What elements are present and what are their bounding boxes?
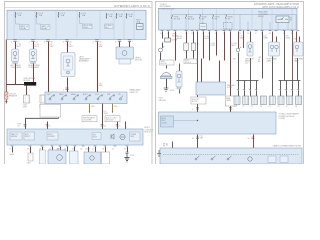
svg-text:SPLICE: SPLICE [161, 63, 168, 65]
wire W9 to leveling motor left pin [119, 42, 121, 48]
wire W11 splice bar to left feed [6, 84, 24, 86]
wire RW14 [243, 31, 245, 49]
wire W18 stub into bottom block [46, 122, 51, 130]
svg-text:4: 4 [63, 41, 64, 43]
svg-text:VT/W: VT/W [211, 45, 216, 47]
junction block JB (fuse box) [7, 10, 146, 39]
wire RW3 [176, 32, 183, 61]
BCM sub-box B4 [92, 133, 101, 140]
TIPM relay K4 [276, 16, 292, 23]
TIPM relay K2 [200, 22, 207, 30]
JB bottom connector tick C5 [93, 40, 102, 43]
wire label W16 code [104, 111, 109, 115]
svg-text:EXTERIOR LAMPS (1 OF 2): EXTERIOR LAMPS (1 OF 2) [114, 4, 150, 8]
page 1 title text [114, 4, 150, 8]
TIPM relay label text [258, 11, 269, 18]
svg-text:G100: G100 [170, 90, 174, 92]
page 1 border [5, 2, 153, 165]
svg-text:HEAD: HEAD [71, 93, 76, 96]
svg-text:TURN LAMP: TURN LAMP [10, 66, 22, 69]
wire W12b below circuit breaker [5, 100, 8, 104]
JB bottom connector tick C4 [63, 40, 72, 43]
TIPM fuse FE [226, 15, 234, 31]
wire label W2 code [35, 44, 40, 48]
wire label W8 code [99, 44, 104, 87]
svg-text:30: 30 [269, 33, 271, 35]
svg-text:GROUND: GROUND [159, 100, 167, 102]
wire W7 fog lamp to switch [63, 78, 69, 93]
headlamp assembly E6 [267, 32, 280, 63]
wire W20 stub into bottom block far right [125, 122, 127, 130]
wire W10 to leveling motor right pin [129, 42, 131, 48]
svg-text:3: 3 [192, 109, 193, 111]
switch contact SW1d [83, 93, 91, 100]
TIPM relay K3 (dashed) [224, 23, 233, 30]
page 1 header rule [5, 7, 153, 9]
cabin compartment node CCN (box R2) [160, 148, 302, 164]
svg-text:C5: C5 [99, 41, 101, 43]
svg-text:RELAY: RELAY [258, 15, 265, 18]
svg-text:C6: C6 [50, 41, 52, 43]
wire W8 feed to switch right [97, 42, 99, 93]
FCM label [279, 113, 300, 121]
inline connector box X1 [23, 95, 30, 109]
svg-text:15A: 15A [129, 15, 133, 18]
component box RC1 [226, 96, 237, 106]
svg-text:M6 20A: M6 20A [188, 17, 195, 20]
svg-text:ASSEMBLY: ASSEMBLY [79, 60, 90, 63]
svg-text:C2: C2 [242, 106, 244, 108]
BCM sub-box B3 [47, 132, 58, 140]
svg-text:C7: C7 [286, 106, 288, 108]
svg-text:18GY: 18GY [104, 113, 109, 115]
connector plug J7 [286, 96, 293, 108]
svg-text:29: 29 [112, 149, 114, 151]
svg-text:6: 6 [115, 41, 116, 43]
wire bus BL1 [237, 58, 259, 97]
bulb lamp E5 [245, 32, 254, 63]
resistor R2 [191, 32, 196, 59]
page 2 title text [254, 3, 299, 9]
svg-text:TURN LAMP: TURN LAMP [28, 66, 40, 69]
connector plug J6 [278, 96, 285, 108]
svg-text:RELAY: RELAY [41, 27, 48, 30]
resistor R1 [184, 32, 189, 59]
front fog lamp E3 [61, 53, 90, 77]
CCN buzzer glyph [248, 157, 252, 161]
svg-text:G301: G301 [10, 154, 14, 156]
wire bus BL2 [279, 58, 301, 97]
svg-text:BK/YL: BK/YL [35, 46, 40, 48]
wire W5 headlamp switch feed [48, 42, 50, 93]
svg-text:G302: G302 [130, 155, 134, 157]
TIPM pin number smudges [160, 33, 293, 35]
bottom component P2 [39, 147, 45, 164]
svg-text:INPUT: INPUT [25, 136, 31, 138]
svg-text:L64: L64 [294, 38, 297, 40]
wire label RW15 code [286, 35, 297, 40]
svg-text:C8: C8 [295, 106, 297, 108]
horn label box [160, 60, 175, 65]
svg-text:MODULE: MODULE [145, 132, 154, 134]
wire W13 splice down to connector box [26, 86, 28, 96]
wire RW2 [168, 32, 170, 39]
svg-text:25: 25 [72, 149, 74, 151]
JB bottom connector tick C3 [44, 40, 53, 43]
svg-text:POWER MODULE: POWER MODULE [160, 8, 176, 10]
BCM internal buzzer [120, 134, 125, 139]
svg-text:LOGIC: LOGIC [161, 122, 167, 124]
svg-text:15A: 15A [109, 15, 113, 18]
svg-text:6: 6 [119, 126, 120, 128]
wire RW15 [284, 31, 286, 81]
CCN switch glyph 1 [195, 156, 199, 160]
daytime running lamp module (blue box) [196, 59, 236, 96]
TIPM fuse FA [172, 15, 181, 31]
svg-text:3: 3 [63, 89, 64, 91]
svg-text:14GY: 14GY [23, 107, 28, 109]
wire RW6 [209, 32, 211, 61]
svg-text:18BK: 18BK [99, 46, 104, 48]
wire label W1 code [17, 44, 22, 48]
svg-text:C6: C6 [69, 41, 71, 43]
bottom component P6 [102, 147, 110, 164]
svg-text:2: 2 [29, 41, 30, 43]
junction block internal dividers [14, 10, 134, 39]
JB internal label box 3 [80, 18, 93, 30]
svg-text:30: 30 [124, 149, 126, 151]
svg-text:21: 21 [192, 138, 194, 140]
svg-text:B(+): B(+) [105, 27, 109, 29]
BCM internal diode D1 [111, 134, 114, 139]
BCM bottom pin ticks [9, 146, 128, 151]
wire RW5 [204, 32, 211, 59]
svg-text:BLOCK: BLOCK [24, 80, 31, 82]
JB bottom connector tick C7 [128, 40, 133, 43]
JB bottom connector tick C6 [115, 40, 121, 43]
svg-text:CLUSTER: CLUSTER [83, 120, 92, 122]
multifunction switch SW1 [45, 92, 127, 104]
switch circle SW2 [159, 43, 165, 63]
svg-text:PUMP: PUMP [227, 87, 233, 89]
svg-text:18W: 18W [200, 137, 204, 139]
wire RW4 long center [197, 32, 199, 113]
wire RW10 with labels [258, 32, 273, 97]
svg-text:28: 28 [102, 149, 104, 151]
splice block S1 (black bar) [24, 78, 37, 85]
svg-text:8: 8 [49, 126, 50, 128]
fuse F5 [106, 13, 113, 19]
svg-text:C4: C4 [260, 106, 262, 108]
svg-text:3: 3 [44, 41, 45, 43]
wire RW9 [231, 32, 237, 113]
bottom component P4 [68, 147, 79, 164]
svg-text:(CONT): (CONT) [279, 118, 286, 120]
svg-text:18BK: 18BK [99, 85, 104, 87]
svg-text:MODULE: MODULE [106, 120, 114, 122]
svg-text:BK/YL: BK/YL [232, 45, 237, 47]
svg-text:BREAKER: BREAKER [9, 95, 18, 98]
fuse F3 [58, 12, 66, 18]
svg-text:AUTO: AUTO [83, 93, 88, 96]
svg-text:BK/YL: BK/YL [17, 46, 22, 48]
JB internal label box 4 [105, 24, 114, 29]
svg-text:C7: C7 [17, 41, 19, 43]
wire W21 ground stub below BCM [10, 147, 14, 156]
splice label box 2 [184, 59, 197, 64]
wire W2 to right park lamp [33, 42, 35, 50]
CCN left label text [163, 143, 168, 147]
svg-text:M7 20A: M7 20A [174, 17, 181, 20]
circuit breaker CB1 [5, 92, 18, 99]
svg-text:EXTERIOR LAMPS - HEADLAMP SYST: EXTERIOR LAMPS - HEADLAMP SYSTEM [254, 3, 299, 6]
svg-text:C3: C3 [251, 106, 253, 108]
switch contact SW1a [47, 94, 55, 100]
svg-text:SPLICE: SPLICE [185, 62, 192, 64]
svg-text:BK/RD: BK/RD [177, 38, 183, 40]
bottom module label (maroon) [273, 145, 302, 148]
svg-text:MOTOR: MOTOR [135, 60, 143, 62]
connector plug J5 [269, 96, 276, 108]
svg-text:C6: C6 [278, 106, 280, 108]
JB bottom connector tick C1 [11, 40, 20, 43]
svg-text:SENSE: SENSE [11, 136, 18, 138]
connector plug J3 [251, 96, 258, 108]
wire label RW14 code [240, 35, 248, 64]
TIPM internal drop wires [240, 15, 296, 31]
TIPM label text [160, 3, 176, 10]
wire W17 left L run to bottom block [18, 118, 59, 130]
wire RW7 [211, 32, 217, 56]
wire W14 switch output arrow A [82, 104, 97, 122]
CCN sub-box 2 [280, 156, 288, 163]
TIPM fuse FD [213, 15, 221, 31]
page 2 border [156, 2, 304, 165]
svg-text:BEAM: BEAM [245, 60, 250, 63]
wire label W6 code [69, 44, 74, 48]
svg-text:18YL: 18YL [91, 106, 95, 108]
totally integrated power module TIPM [159, 8, 298, 30]
inline connector box X2 [39, 95, 46, 109]
wire RW16 [292, 31, 294, 81]
wire label P5 code [85, 148, 90, 150]
ground G3 [157, 150, 161, 157]
fuse F6 [116, 13, 123, 19]
wire label RT1 (red text) [172, 34, 178, 38]
svg-text:10: 10 [160, 33, 162, 35]
body control module BCM (bottom block page 1) [7, 129, 143, 145]
headlamp leveling motor M1 [116, 47, 143, 64]
wire label W5 code [50, 44, 54, 48]
svg-text:CABIN COMPARTMENT NODE: CABIN COMPARTMENT NODE [273, 145, 302, 148]
wire RW11 through FCM [192, 135, 203, 149]
wire RW1 [162, 32, 164, 39]
TIPM internal bus wire [173, 14, 296, 16]
svg-text:17: 17 [9, 149, 11, 151]
bottom component P5 (blue module) [84, 147, 101, 164]
FCM top pin ticks [192, 108, 234, 112]
left park/turn lamp E1 [10, 49, 22, 69]
front control module FCM (box R1) [159, 112, 277, 134]
svg-text:5: 5 [93, 41, 94, 43]
BCM sub-box B1 [10, 132, 22, 140]
switch contact SW1e [95, 94, 103, 100]
svg-text:15A: 15A [119, 15, 123, 18]
svg-text:34: 34 [248, 138, 250, 140]
wire RW8 [224, 32, 226, 61]
TIPM fuse FB [186, 15, 195, 31]
CCN sub-box 1 [268, 156, 276, 163]
CCN internal dashed bus [163, 154, 299, 156]
svg-text:18LB: 18LB [69, 46, 74, 48]
svg-text:SWITCH: SWITCH [130, 92, 138, 94]
svg-text:REQ: REQ [130, 136, 134, 138]
BCM sub-box B5 [130, 132, 141, 141]
FCM sub-box [161, 116, 174, 127]
wire W16 switch to bottom block [101, 104, 107, 130]
wire W3 lamp E1 to splice [16, 64, 25, 85]
switch contact SW1b [59, 93, 67, 100]
wire W4 lamp E2 to splice [33, 64, 35, 83]
svg-text:L10 18: L10 18 [56, 148, 61, 150]
connector plug J8 [295, 96, 302, 108]
svg-text:26: 26 [247, 33, 249, 35]
svg-text:26: 26 [80, 149, 82, 151]
wire W12 left feed vertical [5, 40, 7, 93]
diode D2 [165, 38, 178, 42]
JB relay K1 [136, 20, 143, 30]
svg-text:12: 12 [104, 126, 106, 128]
switch SW1 label [130, 89, 142, 94]
right area small switch SW3 [233, 32, 241, 81]
svg-text:15: 15 [191, 33, 193, 35]
connector plug J2 [242, 96, 249, 108]
fuse F4 [79, 12, 87, 18]
wire label RW10 code [264, 35, 269, 39]
horn H1 [161, 66, 173, 89]
boxed wire label RL1 [191, 97, 206, 104]
svg-text:C5: C5 [269, 106, 271, 108]
TIPM fuse FC [200, 15, 208, 31]
ground G2 [164, 88, 174, 92]
svg-text:9: 9 [233, 109, 234, 111]
svg-text:OFF: OFF [47, 94, 50, 96]
fuse F1 [15, 12, 23, 18]
svg-text:C7: C7 [35, 41, 37, 43]
fuse F7 [126, 13, 133, 19]
bottom component P1 [27, 147, 33, 165]
svg-text:18BR: 18BR [264, 37, 269, 39]
svg-text:SW: SW [233, 59, 236, 61]
svg-text:L20 18: L20 18 [85, 148, 90, 150]
connector body outline X3 [40, 104, 61, 117]
wire W1 to left park lamp [15, 42, 17, 50]
svg-text:27: 27 [92, 149, 94, 151]
connector plug J1 [234, 96, 241, 108]
JB internal label box 1 [16, 18, 30, 30]
svg-text:18: 18 [27, 149, 29, 151]
svg-text:18GN: 18GN [286, 37, 291, 39]
svg-text:FEED: FEED [83, 27, 89, 29]
svg-text:L61: L61 [245, 63, 248, 65]
svg-text:M5: M5 [202, 18, 205, 20]
wire W19 stub into bottom block right [116, 122, 121, 130]
svg-text:C1: C1 [234, 106, 236, 108]
svg-text:C302: C302 [27, 162, 31, 164]
svg-text:27: 27 [255, 33, 257, 35]
bottom component P3 (blue box with buzzer) [48, 147, 66, 164]
svg-text:DRIVER: DRIVER [48, 136, 55, 138]
svg-text:7: 7 [132, 41, 133, 43]
JB internal label box 2 [37, 18, 51, 30]
svg-text:85: 85 [290, 20, 292, 22]
CCN switch glyph 3 [227, 156, 231, 160]
right park/turn lamp E2 [28, 49, 40, 69]
wire W15 switch output arrow B [105, 104, 120, 122]
svg-text:BLOCK: BLOCK [192, 101, 199, 103]
svg-text:M3: M3 [228, 18, 231, 20]
switch contact SW1f [107, 94, 115, 100]
svg-text:BK: BK [258, 61, 261, 63]
svg-text:M4: M4 [215, 18, 218, 20]
ground reference text [159, 98, 167, 102]
FCM internal node [174, 120, 199, 121]
JB bottom connector tick C2 [29, 40, 38, 43]
switch contact SW1g [118, 94, 123, 100]
CCN switch glyph 2 [211, 156, 215, 160]
BCM label [145, 127, 154, 134]
BCM sub-box B2 [24, 132, 35, 140]
switch contact SW1c [71, 93, 79, 100]
svg-text:RELAY: RELAY [20, 27, 27, 30]
wire stub RW13 [166, 142, 173, 149]
TIPM bottom pin ticks [161, 30, 300, 32]
headlamp assembly E7 [294, 32, 305, 63]
connector plug J4 [260, 96, 267, 108]
wire W6 to front fog lamp [67, 42, 69, 53]
svg-text:20: 20 [18, 125, 20, 127]
svg-text:1: 1 [11, 41, 12, 43]
fuse F2 [36, 12, 44, 18]
bulb lamp E4 [176, 64, 182, 94]
svg-text:18YL: 18YL [114, 106, 118, 108]
bottom component P7 with ground [124, 147, 134, 162]
wire RW12 FCM to bottom module [248, 135, 255, 149]
svg-text:18VT: 18VT [50, 46, 54, 48]
